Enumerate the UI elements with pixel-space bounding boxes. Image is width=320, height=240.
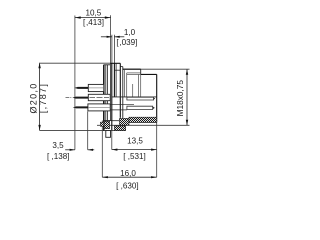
flange top edge (110, 62, 120, 64)
flange rear face (113, 63, 115, 97)
solder pin 2 (72, 97, 88, 99)
hatch block 3 (114, 126, 125, 131)
arrow right of 10,5 (105, 16, 111, 18)
cylinder behind flange top edge (114, 69, 120, 71)
hatch band left part (120, 118, 130, 125)
contact passage lines to pin B (110, 103, 134, 105)
step down at thread end (140, 69, 142, 74)
dimension 3,5 (65, 149, 75, 151)
inner verticals (124, 69, 126, 97)
flange front face (111, 63, 113, 130)
rim top edge (104, 64, 111, 66)
svg-text:1,0: 1,0 (124, 28, 136, 37)
extension line 13,5 left (111, 131, 113, 150)
rim line 3 (109, 63, 111, 120)
svg-text:M18x0,75: M18x0,75 (175, 80, 185, 117)
solder pin 3 sleeve (88, 104, 110, 111)
extension line 3,5 right (87, 112, 89, 150)
thread left face (122, 67, 124, 118)
extension line right of 10,5 (110, 15, 112, 63)
solder pin 1 sleeve (88, 84, 104, 91)
bottom edge of front shroud (126, 121, 156, 123)
dimension M18 line (186, 69, 188, 125)
extension line top dia20 (40, 62, 111, 64)
dimension 16,0 (102, 176, 156, 178)
solder pin 2 centerline (66, 97, 70, 99)
contact pin C right (middle) (127, 97, 155, 100)
body bottom edge (104, 120, 112, 122)
dimension 13,5 (112, 149, 157, 151)
svg-text:10,5: 10,5 (86, 9, 102, 18)
svg-text:3,5: 3,5 (52, 141, 64, 150)
extension lines 1,0 (111, 35, 113, 63)
svg-text:[,787]: [,787] (38, 83, 48, 113)
thread top edge (dark overdraw) (123, 68, 141, 70)
body rear dark face (103, 65, 105, 131)
stem below flange (106, 131, 111, 138)
vertical at 120.3 (119, 63, 121, 118)
front face (156, 74, 158, 122)
insulator box bottom edge (112, 120, 120, 122)
svg-text:[ ,413]: [ ,413] (83, 18, 104, 27)
dimension 1,0 arrows (101, 36, 112, 38)
dimension diameter 20 line (39, 63, 41, 131)
extension line 16,0 left (101, 121, 103, 178)
svg-text:[ ,630]: [ ,630] (116, 181, 139, 190)
rim line 2 (107, 65, 109, 121)
svg-text:[ ,138]: [ ,138] (47, 152, 70, 161)
dimension 10,5 line (75, 17, 111, 19)
extension line left (10,5 / 3,5 shared) (74, 16, 76, 150)
arrow left of 10,5 (75, 16, 81, 18)
extension line bottom dia20 (40, 130, 126, 132)
svg-text:13,5: 13,5 (127, 136, 143, 145)
solder pin 2 sleeve (88, 94, 110, 100)
inner sleeve top line a (127, 72, 141, 74)
extension line M18 bottom (97, 124, 190, 126)
hatch block left small (100, 122, 104, 126)
hatch block 1 (104, 121, 109, 128)
contact pin B right (lower) (127, 106, 155, 109)
extension line M18 top (also thread top edge) (123, 68, 190, 70)
solder pin 3 (73, 106, 88, 108)
front shroud top edge (141, 73, 157, 75)
step edge to thread (120, 66, 123, 68)
rim line 1 (105, 65, 107, 121)
hatch band knurl under thread (129, 117, 157, 122)
inner sleeve top line b (127, 74, 141, 76)
gasket line behind flange (115, 63, 117, 97)
svg-text:[ ,531]: [ ,531] (123, 152, 146, 161)
svg-text:16,0: 16,0 (120, 169, 136, 178)
extension line 16,0/13,5 right shared (156, 122, 158, 177)
solder pin 1 (74, 87, 88, 89)
cavity floor (112, 96, 157, 98)
svg-text:[ ,039]: [ ,039] (116, 38, 137, 47)
